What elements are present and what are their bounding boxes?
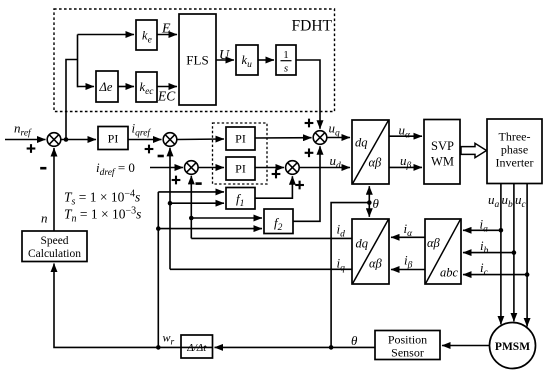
summing junction S4 ud bbox=[286, 161, 300, 175]
wire S1 to PI1 bbox=[61, 139, 96, 141]
plus sign at S4 bottom for f1 input bbox=[295, 181, 304, 190]
wire phase b from inverter to PMSM bbox=[513, 184, 515, 322]
wire PI2 to S5 bbox=[255, 137, 312, 139]
summing junction S3 d-current error bbox=[185, 161, 199, 175]
plus sign at S3 bbox=[172, 176, 181, 185]
wire FLS to ku bbox=[216, 59, 234, 61]
summing junction S5 uq bbox=[313, 131, 327, 145]
svg-text:SVP: SVP bbox=[431, 139, 454, 153]
wire integrator down to uq summing junction bbox=[296, 60, 320, 129]
wire i_a to alpha-beta/abc transform bbox=[463, 229, 501, 231]
wire S4 to dq transform bbox=[299, 167, 350, 169]
open block arrow SVPWM to inverter bbox=[461, 143, 487, 157]
wire w_r to f1 upper input bbox=[158, 191, 224, 193]
junction dot on i_d line for f2 input bbox=[189, 216, 194, 221]
svg-text:αβ: αβ bbox=[369, 156, 383, 170]
svg-text:Position: Position bbox=[388, 333, 427, 347]
wire theta down into current dq transform bbox=[368, 203, 370, 217]
junction dot phase a tap bbox=[499, 228, 504, 233]
wire i_alpha to current dq transform bbox=[391, 236, 425, 238]
wire n from speed calculation to S1 bbox=[53, 148, 55, 231]
wire S5 to dq transform bbox=[327, 137, 350, 139]
wire i_d feedback up into S3 bbox=[190, 176, 192, 239]
motor PMSM bbox=[490, 323, 536, 369]
wire phase a from inverter to PMSM bbox=[500, 184, 502, 325]
svg-text:αβ: αβ bbox=[427, 236, 441, 250]
block ku gain bbox=[236, 45, 258, 75]
svg-text:αβ: αβ bbox=[369, 257, 383, 271]
block integrator 1/s bbox=[276, 45, 296, 75]
svg-text:Inverter: Inverter bbox=[496, 156, 534, 170]
minus sign at S3 bbox=[196, 182, 202, 185]
wire position sensor to delta-t block bbox=[215, 346, 376, 348]
wire S2 to PI2 bbox=[177, 138, 224, 141]
svg-text:abc: abc bbox=[440, 266, 459, 280]
svg-text:PI: PI bbox=[108, 132, 119, 146]
svg-text:Speed: Speed bbox=[40, 235, 68, 247]
svg-text:dq: dq bbox=[355, 136, 368, 150]
svg-text:θ: θ bbox=[351, 333, 358, 348]
wire S3 to PI3 bbox=[198, 167, 224, 169]
svg-text:Δe: Δe bbox=[99, 80, 113, 94]
wire i_beta to current dq transform bbox=[391, 269, 425, 271]
block three-phase inverter bbox=[487, 119, 542, 184]
junction dot theta branch bbox=[329, 345, 334, 350]
svg-text:FLS: FLS bbox=[186, 53, 208, 68]
wire i_d branch to f2 upper input bbox=[191, 217, 262, 219]
block PI3 d-axis current regulator bbox=[226, 157, 255, 180]
inner dashed box around current PI regulators bbox=[213, 123, 268, 184]
junction dot on line A for f2 lower input bbox=[156, 226, 161, 231]
svg-text:s: s bbox=[284, 63, 288, 75]
wire ku to integrator bbox=[258, 59, 274, 61]
node A junction dot after S1 bbox=[64, 137, 69, 142]
block ke gain bbox=[136, 20, 157, 50]
svg-text:PI: PI bbox=[235, 132, 246, 146]
block delta/delta-t differentiator bbox=[181, 335, 213, 358]
FDHT fuzzy controller dashed box bbox=[54, 9, 335, 112]
wire phase c from inverter to PMSM bbox=[526, 184, 528, 327]
svg-text:Three-: Three- bbox=[499, 130, 531, 144]
block FLS fuzzy logic system bbox=[179, 14, 216, 105]
wire PI1 to S2 bbox=[128, 139, 162, 141]
summing junction S2 q-current error bbox=[163, 133, 177, 147]
plus sign at speed summing junction bbox=[27, 144, 36, 153]
wire w_r vertical feed line A bbox=[157, 192, 159, 348]
block speed calculation bbox=[22, 231, 87, 262]
svg-text:1: 1 bbox=[283, 49, 289, 61]
plus sign above S5 for FDHT input bbox=[305, 119, 314, 128]
svg-text:θ: θ bbox=[373, 196, 380, 211]
wire f2 output up into S5 bbox=[293, 146, 320, 221]
wire ke to FLS bbox=[157, 34, 177, 36]
junction dot phase b tap bbox=[512, 250, 517, 255]
junction dot w_r branch to line A bbox=[156, 345, 161, 350]
wire u_alpha to SVPWM bbox=[389, 135, 422, 137]
block position sensor bbox=[375, 331, 440, 360]
svg-text:FDHT: FDHT bbox=[292, 18, 333, 35]
wire u_beta to SVPWM bbox=[389, 166, 422, 168]
wire i_d from transform to line C bbox=[191, 237, 352, 239]
wire i_b to alpha-beta/abc transform bbox=[463, 252, 514, 254]
block PI2 q-axis current regulator bbox=[226, 127, 255, 150]
wire w_r branch to f2 lower input bbox=[158, 228, 262, 230]
plus sign at S2 bbox=[145, 145, 154, 154]
block PI1 speed regulator bbox=[98, 127, 128, 150]
block f2 decoupling bbox=[264, 209, 293, 234]
junction dot on theta line bbox=[367, 200, 372, 205]
svg-text:n: n bbox=[41, 211, 48, 226]
wire kec to FLS bbox=[157, 86, 177, 88]
wire de to kec bbox=[118, 86, 134, 88]
svg-text:WM: WM bbox=[431, 155, 454, 169]
block de delta-e bbox=[96, 71, 118, 102]
svg-text:PMSM: PMSM bbox=[495, 341, 530, 353]
svg-text:dq: dq bbox=[356, 237, 369, 251]
junction dot phase c tap bbox=[525, 272, 530, 277]
svg-text:PI: PI bbox=[235, 162, 246, 176]
wire PI3 to S4 bbox=[255, 167, 284, 169]
svg-text:Sensor: Sensor bbox=[391, 346, 424, 360]
wire w_r to speed calculation bbox=[181, 346, 213, 348]
svg-text:Calculation: Calculation bbox=[28, 248, 81, 260]
wire i_q branch to f1 lower input bbox=[170, 202, 224, 204]
block dq to alpha-beta voltage transform bbox=[352, 120, 389, 184]
minus sign for speed feedback bbox=[40, 167, 46, 170]
wire theta up into voltage dq transform bbox=[368, 186, 370, 202]
summing junction S1 speed error bbox=[47, 133, 61, 147]
plus sign below S5 for f2 input bbox=[305, 148, 314, 157]
wire i_dref to S3 bbox=[150, 167, 183, 169]
wire i_q feedback up into S2 bbox=[169, 148, 171, 269]
junction dot on i_q line for f1 input bbox=[168, 201, 173, 206]
wire theta branch from position sensor line bbox=[331, 203, 369, 348]
minus sign at S2 bbox=[158, 155, 164, 158]
wire PMSM to position sensor bbox=[442, 345, 490, 347]
block dq/alpha-beta current transform bbox=[352, 219, 389, 284]
block kec gain bbox=[136, 72, 157, 102]
wire i_c to alpha-beta/abc transform bbox=[463, 274, 527, 276]
block alpha-beta to abc current transform bbox=[425, 219, 461, 284]
plus sign at S4 left bbox=[272, 170, 281, 179]
wire i_q from transform to line B bbox=[170, 268, 352, 270]
wire f1 output up into S4 bbox=[255, 176, 292, 198]
svg-text:EC: EC bbox=[157, 89, 176, 104]
wire n_ref input bbox=[5, 139, 46, 141]
svg-text:phase: phase bbox=[501, 143, 528, 157]
wire from node A up into FDHT and split to ke and de bbox=[66, 60, 78, 140]
block SVPWM bbox=[424, 120, 460, 185]
block f1 decoupling bbox=[226, 188, 255, 210]
